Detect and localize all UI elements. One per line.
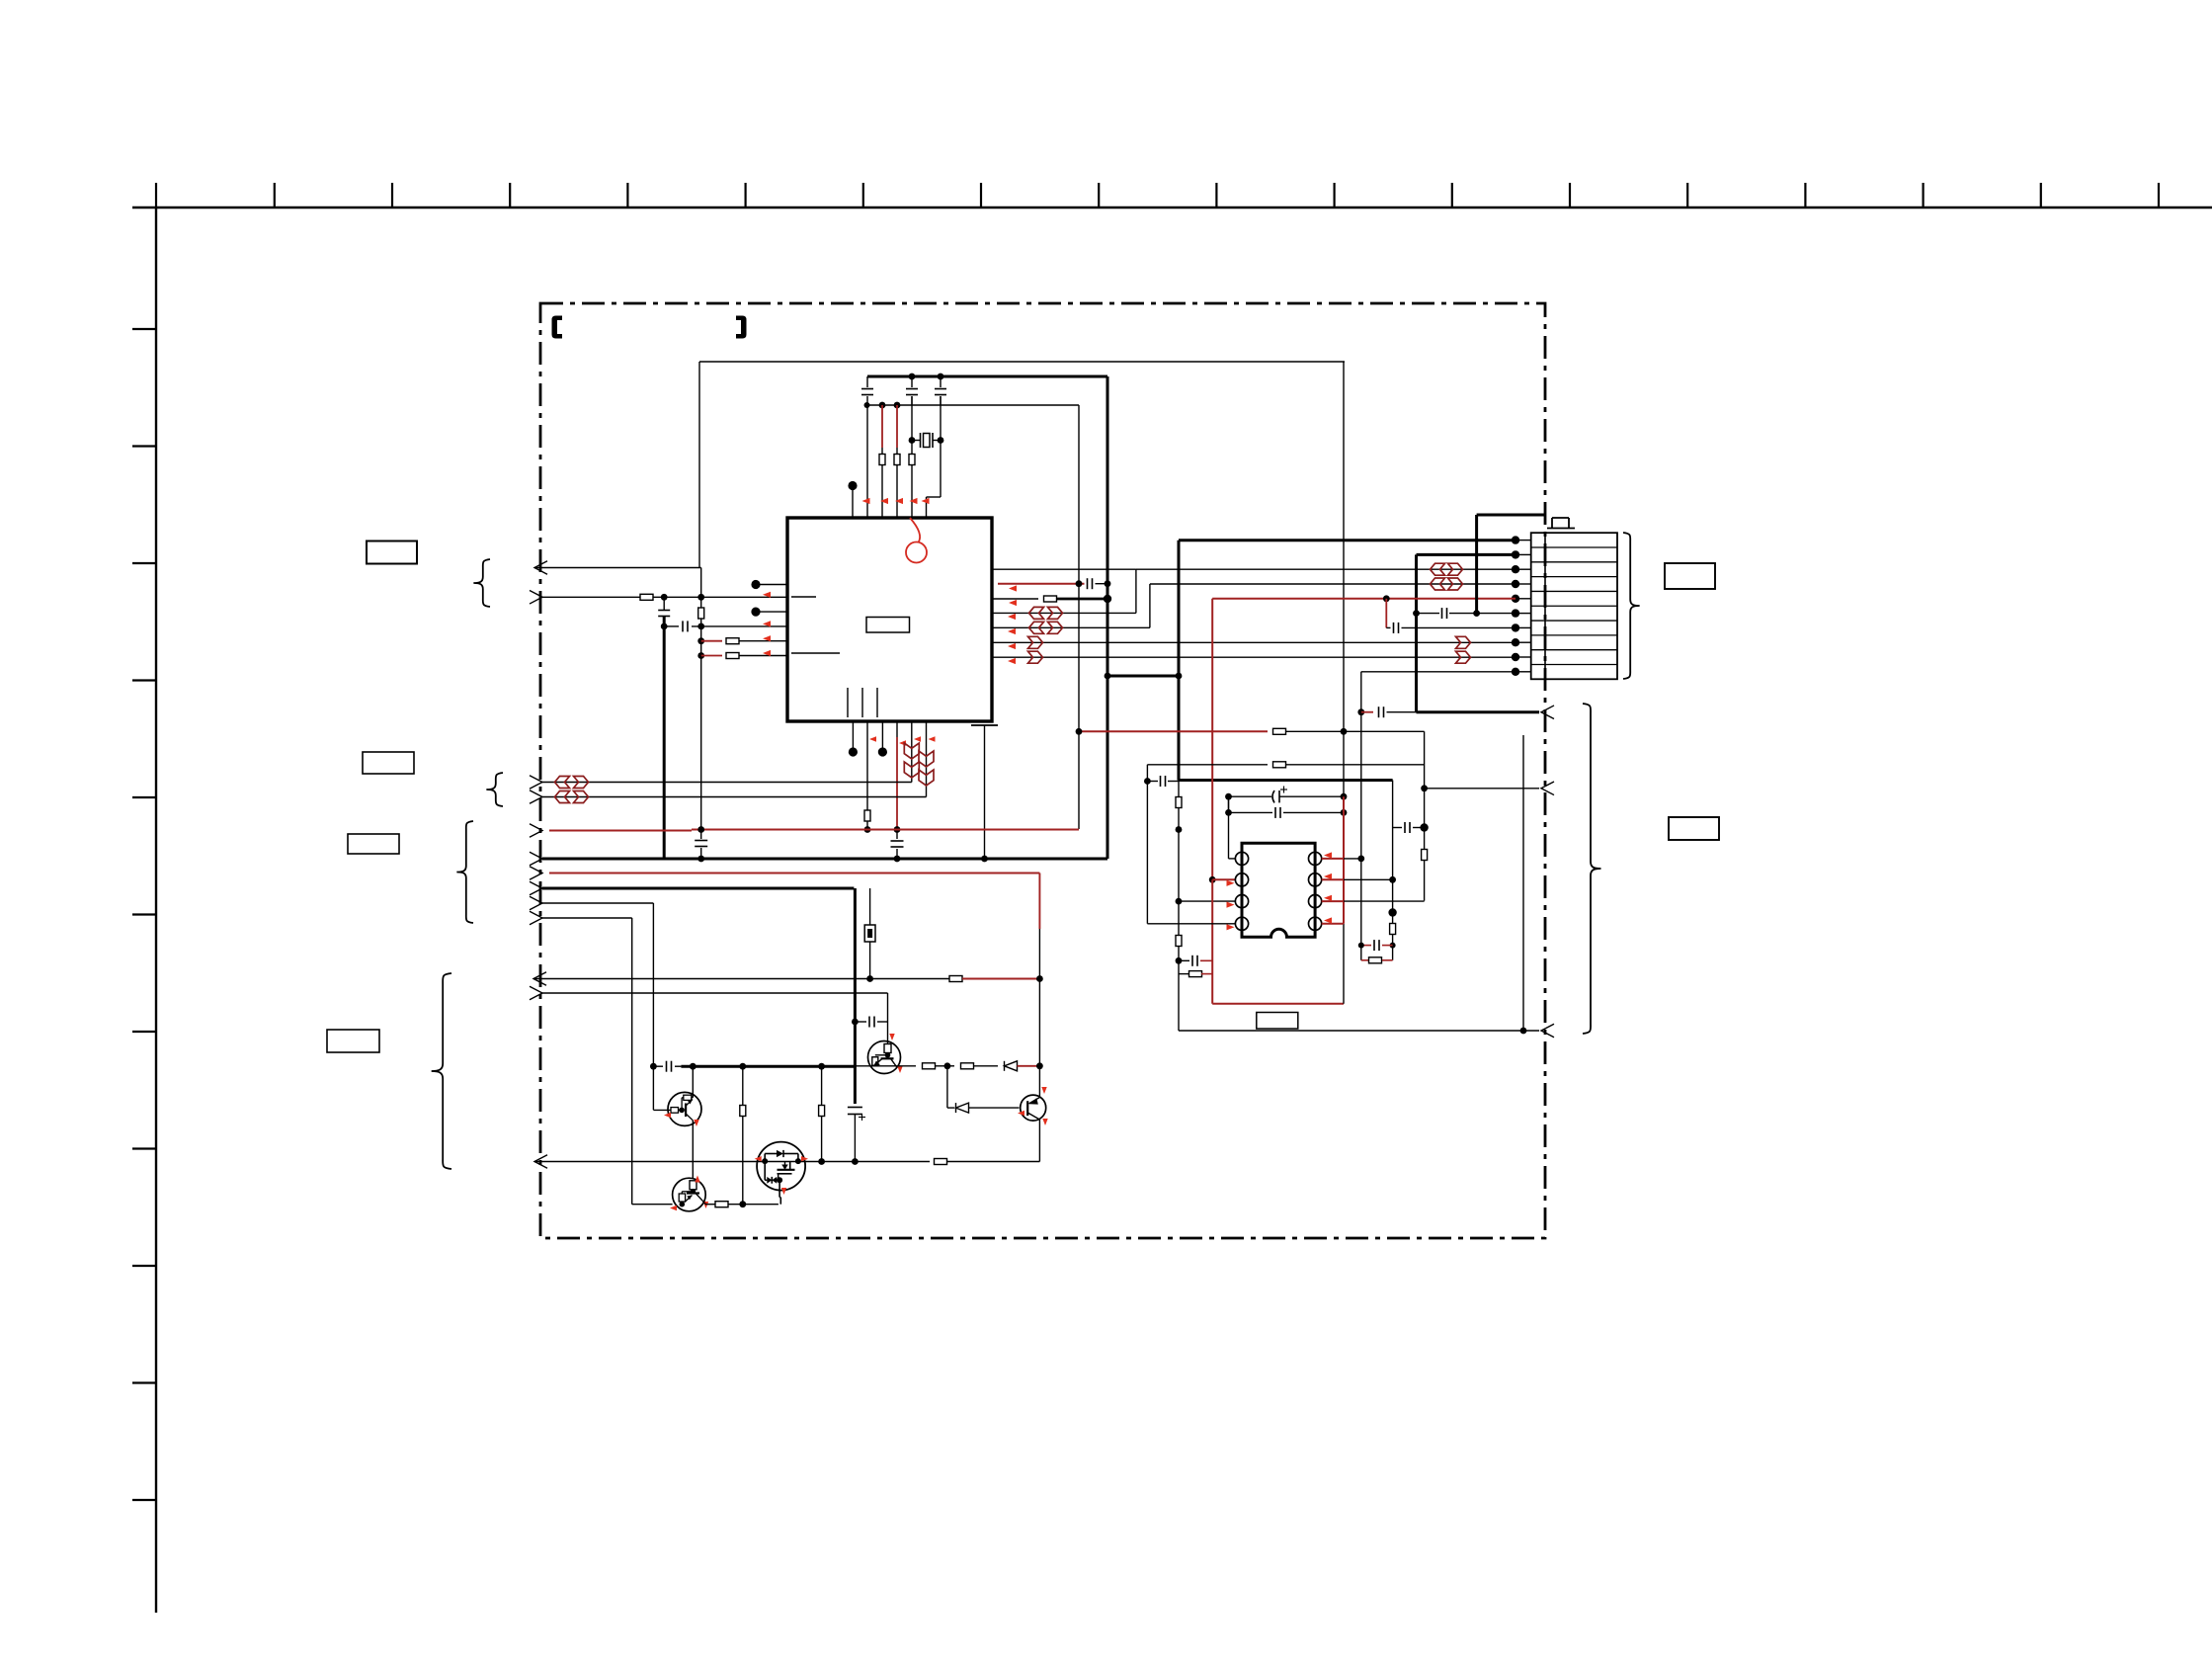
resistor R23: [819, 1106, 825, 1117]
QM left loop bottom with diodes: [764, 1161, 766, 1180]
chevron row8: [1456, 636, 1471, 648]
red wire y740: [1079, 730, 1268, 732]
red vertical x1360: [1343, 796, 1345, 924]
Q2 collector wire: [692, 1066, 694, 1098]
node x1193 red bus: [1176, 826, 1183, 833]
node y1043: [1520, 1028, 1527, 1035]
resistor R22: [740, 1106, 746, 1117]
chevron row665 left: [1028, 651, 1043, 663]
brace connector right: [1623, 533, 1640, 679]
resistor R7: [726, 653, 739, 659]
chevron pair row620: [1029, 607, 1044, 619]
resistor R14 x1409: [1390, 924, 1396, 935]
vertical x1052 black: [1038, 929, 1040, 979]
node x1409 y923: [1388, 908, 1396, 916]
row 620 jog to connector row3: [992, 612, 1136, 614]
label box 2: [363, 752, 414, 774]
row 665 straight: [992, 656, 1516, 658]
red row5 wire: [1212, 598, 1516, 600]
chevrons at boundary row2: [555, 791, 570, 803]
IC U2 body: [1242, 843, 1315, 937]
node x1121 y684: [1105, 673, 1111, 680]
wire pin x908 down: [896, 465, 898, 519]
node redbus x709: [697, 826, 704, 833]
label box right 2: [1669, 817, 1719, 840]
node 648: [697, 637, 704, 644]
red arrows top pins: [862, 498, 870, 504]
vertical x661: [652, 903, 654, 1110]
top bus line A thick: [867, 375, 1107, 378]
red corner x1052: [1038, 874, 1040, 930]
resistor R18: [923, 1063, 936, 1069]
red vertical x1403: [1385, 599, 1387, 628]
IC bottom pin red x908: [896, 721, 898, 737]
IC U1 body: [787, 518, 992, 721]
IC U2 label box: [1257, 1013, 1298, 1030]
x1193 to corner y1041: [1178, 960, 1180, 1031]
thick corner x864: [854, 888, 857, 1022]
wire row 663 b: [739, 655, 770, 657]
outer net box right edge down: [1343, 362, 1345, 731]
shield symbol above connector: [1552, 517, 1569, 519]
vertical x1409 upper: [1392, 781, 1394, 924]
IC U1 inner stub left bottom: [791, 652, 840, 654]
thick bus y1079: [681, 1065, 855, 1068]
wire y1005 arrow: [530, 986, 542, 1000]
wire input 2: [653, 596, 770, 598]
arrow out left top: [534, 561, 547, 575]
node x1052 y1078: [1036, 1062, 1043, 1069]
U2 red arrows right pins: [1324, 852, 1332, 858]
node 635 c: [697, 624, 704, 630]
IC ground pin T: [971, 724, 998, 726]
vertical x1052 to Q4: [1038, 1066, 1040, 1097]
node q1 e: [944, 1062, 951, 1069]
vertical x1377: [1360, 672, 1362, 946]
thick vertical x1193: [1178, 541, 1181, 781]
node x751 y1079: [739, 1063, 746, 1070]
red wire y990: [962, 978, 1039, 980]
cap C15 x1409-x1441: [1393, 827, 1402, 829]
chevron row9: [1456, 651, 1471, 663]
IC U1 top pin stub with dot: [852, 490, 854, 518]
node x831 y1079: [818, 1063, 825, 1070]
resistor R3: [911, 441, 913, 455]
vertical x1161: [1146, 765, 1148, 924]
node C12 right: [1341, 793, 1348, 800]
resistor R2: [894, 455, 900, 465]
node C15 right: [1420, 823, 1428, 831]
node L2 red: [1209, 876, 1216, 883]
brace group D: [432, 973, 451, 1169]
wire pin x923 crystal left: [911, 396, 913, 441]
Q3 emitter wire: [702, 1201, 705, 1205]
vertical x1441: [1424, 731, 1426, 900]
x1193 down to resistor2: [1178, 901, 1180, 935]
resistor R17 y990: [949, 976, 962, 982]
IC U2 pins right: [1309, 852, 1322, 865]
dash-dot boundary box: [540, 303, 1545, 1238]
line B horizontal: [867, 404, 1080, 406]
diode D2: [947, 1107, 954, 1109]
node y740 x1360: [1341, 728, 1348, 735]
transistor Q1: [868, 1041, 901, 1074]
wire y990 arrow: [533, 972, 546, 986]
wire chev row1 left: [530, 776, 542, 790]
node x880 y990: [866, 975, 873, 982]
node dots on line A: [909, 374, 916, 380]
red bus y839: [530, 824, 542, 838]
wire L1 up join: [1228, 796, 1230, 812]
thick vertical bus x1121: [1106, 376, 1109, 859]
QM drain tick: [789, 1161, 791, 1170]
node x908 bus869: [894, 856, 901, 863]
QM node left: [762, 1158, 768, 1164]
chevron pair row635: [1029, 622, 1044, 633]
wires into IC left: [770, 596, 787, 598]
red arrows IC left pins: [763, 592, 771, 598]
IC bottom pin x937 chevrons: [926, 721, 928, 797]
wire input: [542, 596, 640, 598]
thick vertical to bus: [663, 617, 666, 859]
node 663: [697, 652, 704, 659]
wire line B right end down: [1078, 405, 1080, 829]
vertical x1360 black upper: [1343, 731, 1345, 796]
arrow line y720 thick: [1417, 710, 1540, 713]
node input a: [661, 594, 668, 601]
IC U1 red pin-1 curve: [910, 518, 920, 542]
U2 R4 red wire: [1322, 923, 1344, 925]
red vertical x1227: [1211, 599, 1213, 880]
chevron row650 left: [1028, 636, 1043, 648]
cap C1 top: [866, 376, 868, 387]
node x831 y1175: [818, 1158, 825, 1165]
connector pin rows and dots: [1516, 540, 1531, 541]
node C12 left: [1225, 793, 1232, 800]
brace group B: [486, 773, 503, 806]
node pin878 redbus: [864, 826, 871, 833]
cap C10 x1161-x1193: [1147, 781, 1158, 783]
vertical x880 jumper: [869, 888, 871, 925]
node x866 y1175: [852, 1158, 859, 1165]
thick corner x1121 bus y684: [1107, 675, 1179, 678]
row 576 from IC: [992, 568, 1136, 570]
connector CN1 row lines: [1531, 546, 1617, 548]
vertical x831 resistor: [821, 1066, 823, 1105]
label box right 1: [1665, 563, 1715, 589]
node x1409 pair: [1390, 943, 1396, 949]
ruler horizontal line: [132, 207, 2212, 208]
IC U1 inner stub left top: [791, 596, 816, 598]
IC bottom pin resistor: [866, 721, 868, 810]
node x908 redbus: [894, 826, 901, 833]
node x1377 y720: [1357, 708, 1364, 715]
resistor R10 x1193: [1176, 936, 1182, 947]
row 650 straight: [992, 641, 1516, 643]
IC U1 red pin-1 circle: [906, 542, 927, 563]
resistor R1: [879, 455, 885, 465]
wire out left top: [534, 567, 701, 569]
wire pin x893 down: [881, 465, 883, 519]
wire row 635 b: [692, 625, 787, 627]
node row591 bus: [1105, 580, 1111, 587]
node row606 bus: [1104, 595, 1111, 603]
arrow input left: [530, 591, 542, 605]
cap C7 row7: [1386, 626, 1390, 628]
cap C20 x908: [896, 830, 898, 840]
wire y740 b: [1285, 730, 1425, 732]
resistor R6: [726, 638, 739, 644]
label box 4: [327, 1030, 379, 1052]
cap C6 row591: [1087, 578, 1089, 589]
electrolytic cap C19: [854, 1022, 857, 1104]
IC U1 inner bottom ticks: [847, 688, 849, 717]
resistor R4 input: [640, 594, 653, 600]
IC bottom pin dot 2: [881, 721, 883, 748]
node x1092 row591: [1076, 580, 1083, 587]
node y990 x1052: [1036, 975, 1043, 982]
arrow line y797: [1425, 788, 1539, 790]
U2 cap C13: [1229, 811, 1273, 813]
resistor R15 pair2: [1360, 946, 1362, 960]
cap C2 top: [911, 376, 913, 387]
wire row591 to bus: [1096, 583, 1108, 585]
wire row10: [1361, 671, 1516, 673]
vertical x1360 black lower: [1343, 924, 1345, 1004]
ruler top ticks: [274, 183, 276, 208]
node red row5: [1383, 595, 1390, 602]
resistor R11 pair: [1179, 973, 1189, 975]
transistor Q4: [1021, 1095, 1046, 1121]
IC U2 pins left: [1235, 852, 1248, 865]
red vertical x1227 lower: [1211, 879, 1213, 1004]
Q1 emitter wire: [855, 1065, 916, 1067]
U2 L1 feeder: [1229, 858, 1236, 860]
brace group A: [473, 559, 490, 607]
node R2 x1409: [1389, 876, 1396, 883]
wire pin x878 down: [866, 405, 868, 518]
node x661 y1079: [650, 1063, 657, 1070]
fusible resistor FB1: [864, 925, 875, 942]
wire y1175 right part: [947, 1161, 1040, 1163]
transistor Q3: [673, 1178, 706, 1211]
node x1161 y790: [1144, 778, 1151, 785]
node y797: [1421, 785, 1428, 791]
QM gate drop: [778, 1174, 779, 1181]
U2 R1 red stub: [1322, 858, 1344, 860]
vertical x639: [631, 918, 633, 1205]
cap C8 row6: [1417, 613, 1440, 615]
QM source tail: [778, 1180, 780, 1197]
connector CN1 inner divider: [1544, 533, 1546, 679]
node x751 y1217: [739, 1201, 746, 1207]
cap C14 pair2: [1361, 945, 1371, 947]
cap C3 top: [940, 376, 942, 387]
wire red row 648: [701, 640, 722, 642]
wire x709 down: [700, 597, 702, 608]
node row6 x1494: [1473, 610, 1480, 617]
U2 cap C12 electrolytic: [1229, 795, 1272, 797]
QM node gate: [777, 1177, 782, 1183]
resistor R13 y740: [1273, 728, 1286, 734]
outer net box left edge: [698, 362, 700, 568]
chevron pair row3: [1431, 563, 1445, 575]
red wire to x1052: [1018, 1065, 1040, 1067]
wire red pin x908: [896, 405, 898, 448]
Q4 emitter down: [1038, 1119, 1040, 1162]
bracket right: [736, 316, 747, 339]
node dots on line B: [864, 402, 870, 408]
brace group C: [456, 821, 473, 923]
QM red arrows: [755, 1156, 762, 1161]
resistor R12 y773: [1273, 762, 1286, 768]
node T bus: [981, 856, 988, 863]
resistor R5 shunt: [698, 608, 704, 619]
node 635 a: [661, 624, 668, 630]
diode D1: [1005, 1061, 1018, 1071]
crystal X1: [912, 440, 921, 442]
IC left pin dot 2: [756, 611, 787, 613]
label box 1: [367, 541, 417, 564]
thick row2 wire: [1417, 553, 1516, 556]
node y740 x1092: [1076, 728, 1083, 735]
QM substrate arrow: [784, 1161, 786, 1169]
thick row1 wire: [1179, 539, 1516, 541]
thick bus y899: [530, 881, 542, 895]
node x864 y1034: [852, 1019, 859, 1026]
node C13 right: [1341, 809, 1348, 816]
cap C16 x709: [700, 830, 702, 840]
node q2 top: [690, 1063, 696, 1070]
red bus y883: [530, 867, 542, 880]
resistor R20 y1175: [935, 1159, 947, 1165]
node C13 left: [1225, 809, 1232, 816]
vertical x751 resistor: [742, 1066, 744, 1105]
wire chev row2 left: [530, 790, 542, 804]
QM channel bar: [778, 1169, 795, 1171]
QM body diode loop: [764, 1154, 766, 1162]
node crystal left: [909, 437, 916, 444]
wire to Q4 base: [969, 1107, 1020, 1109]
cap C17 q1: [855, 1021, 866, 1023]
node input b: [697, 594, 704, 601]
MOSFET QM: [757, 1142, 805, 1191]
thick vertical x1433: [1415, 554, 1418, 711]
vertical x1542: [1522, 735, 1524, 1031]
row 635 jog to connector row4: [992, 626, 1150, 628]
wire y914: [530, 896, 542, 910]
cap C11 y720: [1378, 707, 1380, 717]
Q3 base wire: [632, 1204, 673, 1206]
thick top wire to shield: [1477, 514, 1544, 517]
wire row 648 b: [739, 640, 770, 642]
cap C5 row635: [682, 621, 684, 631]
wire y773 b: [1285, 764, 1425, 766]
bracket left: [552, 316, 563, 339]
wire red pin x893: [881, 405, 883, 448]
QM node right: [795, 1158, 801, 1164]
black bus y869 thick: [530, 852, 542, 866]
node R1 x1378: [1357, 856, 1364, 863]
IC bottom pin dot 1: [852, 721, 854, 748]
row 606 thick to bus: [1057, 598, 1108, 601]
wire y773: [1147, 764, 1268, 766]
U2 R3 wire: [1322, 900, 1344, 902]
row 606 resistor R8: [992, 598, 1038, 600]
outer net box top edge: [699, 361, 1345, 363]
label box 3: [348, 834, 399, 854]
chevrons at boundary row1: [555, 777, 570, 789]
chevron pair row4: [1431, 578, 1445, 590]
cap C9 pair: [1179, 959, 1189, 961]
resistor R9 x1193: [1176, 797, 1182, 808]
wire row 635: [664, 625, 679, 627]
red corner y1015: [1212, 1003, 1344, 1005]
connector CN1 body: [1531, 533, 1617, 679]
thick y789 wire: [1179, 779, 1393, 782]
IC left pin dot 1: [756, 584, 787, 586]
wire to 8pin L3: [1179, 900, 1235, 902]
brace lower right: [1583, 704, 1601, 1034]
resistor R21: [715, 1202, 728, 1207]
U2 red arrows left pins: [1227, 880, 1235, 886]
vertical x897 to Q1: [887, 993, 889, 1044]
node crystal right: [938, 437, 944, 444]
red wire to L2: [1212, 878, 1235, 880]
U2 R2 wire: [1322, 878, 1344, 880]
node x1193 L3: [1176, 898, 1183, 905]
node bus869 x709: [697, 856, 704, 863]
wire to 8pin L4: [1147, 923, 1235, 925]
Q2 base wire: [653, 1109, 670, 1111]
resistor R16 x1441: [1422, 850, 1428, 861]
wire y1043 to arrow: [1179, 1030, 1539, 1032]
vertical x958 down: [946, 1066, 948, 1108]
wire y929: [530, 911, 542, 925]
thick vertical x1494: [1475, 515, 1478, 614]
IC U1 inner label rect: [866, 618, 910, 633]
Q2-Q3 wire: [692, 1121, 694, 1179]
x1193 thin below: [1178, 781, 1180, 797]
ruler left ticks: [132, 328, 156, 330]
wire red row 663: [701, 655, 722, 657]
ruler vertical line: [155, 208, 157, 1613]
cap C18 left: [653, 1065, 663, 1067]
red row 591 from IC: [998, 583, 1085, 585]
node pair a: [1176, 957, 1183, 964]
QM gate bar: [778, 1173, 792, 1175]
wire y720 to thick: [1387, 711, 1417, 713]
wire y1175 left part: [534, 1155, 547, 1169]
transistor Q2: [668, 1092, 701, 1125]
red stub y720: [1361, 711, 1373, 713]
IC bottom pin x922 chevrons: [911, 721, 913, 783]
node row6 x1433: [1413, 610, 1420, 617]
wire pin x952-937 jog: [940, 396, 942, 441]
resistor R19: [947, 1065, 954, 1067]
node x1193 y684: [1176, 673, 1183, 680]
node x1377 pair: [1358, 943, 1364, 949]
cap C4 shunt: [663, 597, 665, 610]
